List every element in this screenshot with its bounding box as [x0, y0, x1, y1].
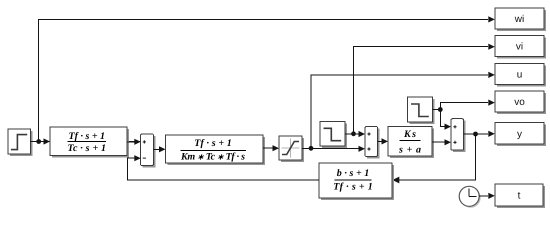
sum block sum2 (+ +) [365, 127, 380, 159]
wire: sum3 output to y [464, 131, 495, 137]
output block y [495, 123, 546, 147]
step source block [8, 129, 33, 156]
pulse generator 2 [408, 97, 435, 124]
wire: branch up to vi [354, 44, 495, 134]
wire: TF3 output to sum3 lower input [432, 139, 451, 145]
junction: pulse1 output branch to vi [351, 131, 356, 136]
sum block sum1 (+ -) [141, 134, 156, 168]
junction: step output branch to wi [36, 139, 41, 144]
svg-text:u: u [517, 70, 523, 81]
svg-text:b · s + 1: b · s + 1 [337, 168, 370, 179]
output block t [495, 184, 545, 208]
wire: feedback from junction down and left to FB block [392, 134, 475, 183]
junction: sum3 output branch to feedback [473, 132, 478, 137]
output block u [495, 64, 546, 87]
output block vo [495, 91, 546, 114]
svg-text:t: t [518, 191, 521, 202]
wire: clock to t [479, 193, 495, 199]
clock block [459, 186, 481, 208]
transfer function TF2 (Tf·s+1)/(Km*Tc*Tf·s) [166, 135, 266, 165]
svg-text:Tf · s + 1: Tf · s + 1 [333, 181, 373, 192]
svg-text:Tf · s + 1: Tf · s + 1 [194, 138, 232, 149]
wire: TF1 to sum1 plus input [127, 139, 141, 145]
pulse generator 1 [320, 122, 347, 149]
svg-text:Ks: Ks [403, 129, 416, 140]
sum block sum3 (+ +) [451, 119, 466, 153]
wire: FB output left and up to sum1 minus input [128, 155, 320, 180]
wire: branch up to u [311, 72, 495, 149]
svg-text:wi: wi [514, 14, 524, 25]
wire: branch up and across to wi [39, 16, 495, 141]
output block vi [495, 36, 546, 59]
wire: step output to TF1 [31, 141, 145, 143]
wire: pulse1 output to sum2 upper input [345, 131, 365, 137]
junction: saturation output branch to u [309, 146, 314, 151]
transfer function TF3 Ks/(s+a) [388, 127, 434, 159]
wire: sum2 output to TF3 [378, 138, 389, 144]
svg-text:Tc · s + 1: Tc · s + 1 [68, 143, 107, 154]
wire: sum1 output to TF2 [154, 146, 166, 152]
svg-text:y: y [517, 129, 522, 140]
svg-text:vi: vi [516, 42, 523, 53]
output block wi [495, 8, 546, 31]
svg-text:s + a: s + a [398, 144, 421, 155]
wire: pulse2 output stub [433, 109, 441, 111]
svg-text:Tf · s + 1: Tf · s + 1 [69, 131, 106, 142]
wire: TF2 to saturation [263, 145, 279, 151]
svg-text:vo: vo [514, 97, 525, 108]
svg-text:Km ∗ Tc ∗ Tf · s: Km ∗ Tc ∗ Tf · s [180, 152, 245, 163]
wire: pulse2 branch up to vo [440, 100, 495, 110]
wire: pulse2 branch down to sum3 upper input [440, 110, 451, 130]
junction: pulse2 output branch [438, 107, 443, 112]
transfer function TF1 (Tf·s+1)/(Tc·s+1) [50, 127, 129, 158]
wire: saturation output across to sum2 lower input [302, 146, 365, 152]
arrowhead into TF1 [44, 138, 51, 144]
feedback transfer function (b·s+1)/(Tf·s+1) [319, 163, 394, 200]
saturation block [279, 136, 304, 162]
